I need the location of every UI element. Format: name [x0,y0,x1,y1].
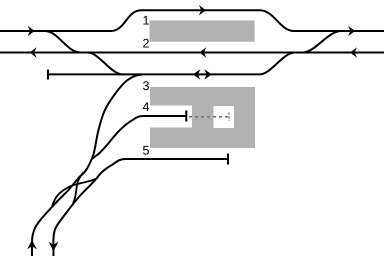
crossover east: track3 line up to main2 [260,53,295,75]
arrow right on main1 west [28,26,35,36]
track 4 dashed end tick [228,113,230,122]
platform 2 notch (bay cutout) [150,106,192,128]
arrow right on main1 east [348,26,355,36]
arrow right on track 1 [199,5,206,15]
svg-text:5: 5 [143,144,150,158]
arrow left on main2 west [30,47,37,57]
crossover west: main2 down to track3 line [88,53,123,75]
up arrow bottom-left line [27,240,37,249]
crossover X: S-curve A to C [73,172,84,204]
double arrow on track3: left part [193,69,201,79]
track 5 [53,159,228,256]
arrow left on main2 centre [199,47,206,57]
track 3 end tick [47,70,49,80]
exit track A: from track3 junction down to bottom-left, up arrow line [32,75,142,256]
svg-text:2: 2 [143,36,150,50]
svg-text:4: 4 [143,100,150,114]
track 3 (bounded siding) [48,73,260,75]
down arrow bottom line [49,242,59,251]
platform 1 [150,20,255,41]
track 1 with main line west and east [0,10,384,31]
track 4 [92,116,186,159]
platform 2 opening (white square) [214,106,235,128]
crossover east: main2 up to main1 [303,31,341,53]
platform 2 (island with notch and opening) [150,87,255,148]
track 4 dashed continuation [189,116,229,118]
track 4 end tick [185,111,187,122]
double arrow on track3: right part [204,69,212,79]
track 5 end tick [227,154,229,165]
svg-text:3: 3 [143,79,150,93]
svg-text:1: 1 [143,13,150,27]
crossover west: main1 to main2 [45,31,80,52]
crossover X: S-curve C to A [52,179,97,207]
arrow left on main2 east [350,47,357,57]
track 2 main line [0,52,384,54]
